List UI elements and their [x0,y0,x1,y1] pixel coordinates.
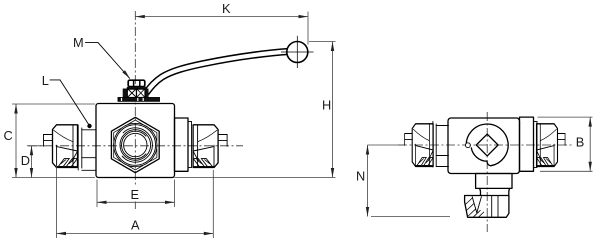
vertical centerline / stem axis front view [134,11,136,187]
left fitting [44,125,78,168]
handle ball end [287,42,308,63]
handle lever [146,51,290,93]
svg-text:C: C [4,128,13,143]
svg-text:D: D [21,153,30,168]
bottom port neck [479,188,510,195]
svg-text:H: H [322,97,331,112]
horizontal centerline front view [28,145,243,147]
stem square X cell right [137,89,146,98]
side left washer [432,122,434,168]
side right fitting [537,124,566,167]
bottom port step block [476,174,512,189]
dim E [96,180,98,208]
side right washer [534,122,538,168]
left collar [82,129,96,131]
port thread circles [114,123,157,166]
vertical centerline side view [486,112,488,232]
stem square (diamond) [476,134,498,156]
right washer [188,122,192,168]
stop pin [466,143,471,148]
dim B [538,116,593,118]
svg-text:L: L [42,73,49,88]
bottom plug cone section [472,197,477,213]
horizontal centerline side view [398,144,572,146]
hexagon chamfer chevrons [128,120,143,124]
handle root joint [144,89,149,98]
port hexagon outer [111,117,159,172]
dim K [135,16,308,18]
dim A [56,165,58,238]
right collar (tall) [175,118,189,171]
svg-text:N: N [356,168,365,183]
right fitting (mirrored) [193,125,227,168]
dim C [12,103,95,105]
side left collar [436,125,448,127]
dim H [309,41,336,43]
svg-text:K: K [222,1,231,16]
side right collar (tall) [520,117,534,171]
svg-text:A: A [131,218,140,233]
side body [448,118,520,174]
svg-text:B: B [576,134,585,149]
dim D [27,145,43,147]
side left fitting [405,124,434,167]
mounting plate [118,98,160,102]
bottom plug hex [465,196,509,218]
svg-text:E: E [131,187,140,202]
stem nut base washer [127,87,146,89]
stem square X cell left [127,89,136,98]
actuator flange circle with notch [466,124,508,166]
valve body [96,104,175,178]
left washer [77,125,79,170]
svg-text:M: M [73,35,84,50]
dim N [368,144,405,146]
stem hub left hook [123,89,128,98]
stem nut [128,80,145,86]
